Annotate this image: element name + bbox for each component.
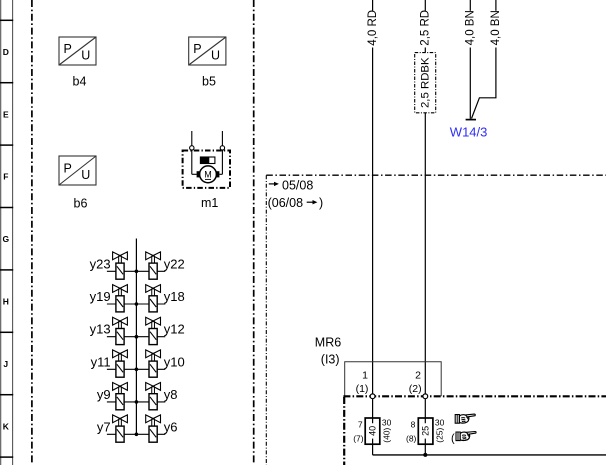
valve y23 bowtie bbox=[113, 252, 128, 260]
fist bbox=[460, 432, 469, 440]
valve y11 bowtie bbox=[113, 350, 128, 358]
valve y7 stem bbox=[118, 419, 120, 426]
cuff bbox=[456, 432, 460, 441]
solenoid valve y13 coil bbox=[116, 329, 124, 345]
dash-dot boundary line middle (x=253.7) bbox=[253, 0, 255, 465]
valve y12 stem bbox=[151, 321, 153, 328]
svg-text:y12: y12 bbox=[164, 322, 185, 337]
valve y19 bowtie bbox=[113, 285, 128, 293]
valve y12 bowtie bbox=[146, 317, 161, 325]
valve y10 bowtie bbox=[146, 350, 161, 358]
svg-text:05/08: 05/08 bbox=[282, 178, 313, 192]
m1 pin circle right bbox=[220, 146, 224, 150]
svg-text:4,0 BN: 4,0 BN bbox=[465, 10, 477, 45]
valve row y9/y8 wire bbox=[107, 401, 165, 403]
junction dot row y19/y18 bbox=[135, 302, 139, 306]
m1 M underline bbox=[205, 178, 211, 180]
valve y11 stem bbox=[118, 354, 120, 361]
svg-text:y10: y10 bbox=[164, 354, 185, 369]
valve y6 stem bbox=[151, 419, 153, 426]
valve y7 bowtie bbox=[113, 415, 128, 423]
svg-text:2,5 RDBK: 2,5 RDBK bbox=[419, 57, 431, 108]
m1 dash-dot box bbox=[183, 151, 230, 188]
wire fuse2 bottom segment bbox=[424, 439, 426, 455]
valve bus vertical wire bbox=[135, 239, 137, 435]
svg-text:4,0 BN: 4,0 BN bbox=[490, 10, 502, 45]
svg-text:2,5 RD: 2,5 RD bbox=[420, 10, 432, 46]
svg-text:y18: y18 bbox=[164, 289, 185, 304]
wire 4,0 BN (x=495.9) bbox=[495, 0, 497, 11]
svg-text:y9: y9 bbox=[97, 387, 111, 402]
m1 brush square left bbox=[197, 171, 201, 177]
bottom bus wire bbox=[373, 454, 606, 456]
solenoid valve y9 coil bbox=[116, 394, 124, 410]
m1 brush square right bbox=[216, 171, 220, 177]
solenoid valve y18 coil bbox=[149, 296, 157, 312]
junction dot row y23/y22 bbox=[135, 270, 139, 274]
pressure sensor b6 box bbox=[59, 156, 96, 185]
fuse 25A rect bbox=[418, 418, 433, 444]
svg-text:U: U bbox=[81, 168, 90, 182]
fuse 40A rect bbox=[365, 418, 380, 444]
wire fuse1 bottom segment bbox=[372, 439, 374, 455]
note arrow 2 bbox=[307, 201, 313, 203]
m1 stub wire right bbox=[221, 131, 223, 174]
solenoid valve y23 coil bbox=[116, 263, 124, 279]
knuckles bbox=[461, 418, 465, 422]
svg-text:1: 1 bbox=[362, 369, 368, 381]
valve y13 bowtie bbox=[113, 317, 128, 325]
bottom junction dot bbox=[423, 453, 427, 457]
svg-text:y13: y13 bbox=[90, 322, 111, 337]
svg-text:P: P bbox=[193, 42, 201, 56]
svg-text:y19: y19 bbox=[90, 289, 111, 304]
fist bbox=[459, 415, 468, 423]
svg-text:(06/08: (06/08 bbox=[268, 196, 303, 210]
svg-text:(2): (2) bbox=[409, 383, 422, 395]
m1 internal wires bbox=[192, 173, 197, 175]
svg-text:y6: y6 bbox=[164, 419, 178, 434]
svg-text:(: ( bbox=[451, 433, 455, 445]
svg-text:U: U bbox=[81, 49, 90, 63]
component boundary MR6 dash-dot vertical bbox=[343, 397, 345, 465]
row tick marks bbox=[0, 20, 13, 457]
pressure sensor b4 box bbox=[59, 37, 96, 65]
svg-text:): ) bbox=[319, 196, 323, 210]
svg-text:W14/3: W14/3 bbox=[450, 125, 488, 140]
svg-text:y22: y22 bbox=[164, 256, 185, 271]
valve y10 stem bbox=[151, 354, 153, 361]
svg-text:8: 8 bbox=[411, 419, 416, 429]
valve y23 stem bbox=[118, 256, 120, 263]
junction dot row y9/y8 bbox=[135, 400, 139, 404]
valve y8 bowtie bbox=[146, 383, 161, 391]
svg-text:m1: m1 bbox=[201, 196, 218, 210]
valve y18 bowtie bbox=[146, 285, 161, 293]
svg-text:P: P bbox=[64, 162, 72, 176]
solenoid valve y11 coil bbox=[116, 361, 124, 377]
solenoid valve y7 coil bbox=[116, 426, 124, 442]
svg-text:7: 7 bbox=[358, 419, 363, 429]
junction dot row y7/y6 bbox=[135, 433, 139, 437]
cuff bbox=[455, 415, 459, 424]
svg-text:40: 40 bbox=[368, 426, 378, 436]
svg-text:y23: y23 bbox=[90, 256, 111, 271]
svg-text:y8: y8 bbox=[164, 387, 178, 402]
hand icon 1 bbox=[455, 414, 475, 423]
solenoid valve y19 coil bbox=[116, 296, 124, 312]
component boundary MR6 dash-dot horizontal bbox=[343, 395, 606, 397]
valve row y19/y18 wire bbox=[107, 303, 165, 305]
note arrow right 05/08 bbox=[269, 183, 275, 185]
m1 pin circle left bbox=[190, 146, 194, 150]
solenoid valve y8 coil bbox=[149, 394, 157, 410]
svg-text:(8): (8) bbox=[406, 433, 417, 443]
valve y6 bowtie bbox=[146, 415, 161, 423]
valve y13 stem bbox=[118, 321, 120, 328]
solenoid valve y12 coil bbox=[149, 329, 157, 345]
m1 switch rectangle outline bbox=[200, 157, 215, 164]
svg-text:K: K bbox=[3, 421, 10, 431]
svg-text:(I3): (I3) bbox=[321, 353, 340, 367]
svg-text:b4: b4 bbox=[73, 75, 87, 89]
svg-text:4,0 RD: 4,0 RD bbox=[367, 10, 379, 46]
svg-text:b5: b5 bbox=[202, 75, 216, 89]
junction dot row y11/y10 bbox=[135, 368, 139, 372]
dash-dot boundary line left (x=32) bbox=[31, 0, 33, 465]
m1 motor circle bbox=[200, 166, 217, 183]
svg-text:25: 25 bbox=[421, 426, 431, 436]
sheet border column right vertical line bbox=[12, 0, 14, 465]
solenoid valve y6 coil bbox=[149, 426, 157, 442]
svg-text:b6: b6 bbox=[74, 197, 88, 211]
pressure sensor b5 box bbox=[189, 37, 226, 65]
svg-text:M: M bbox=[204, 170, 212, 180]
valve y19 stem bbox=[118, 288, 120, 295]
svg-text:E: E bbox=[3, 109, 9, 119]
svg-text:(25): (25) bbox=[435, 427, 445, 442]
svg-text:(1): (1) bbox=[356, 383, 369, 395]
knuckles bbox=[462, 435, 466, 439]
wire 2,5 RD (x=425.3) bbox=[424, 0, 426, 11]
pin circle 1 bbox=[370, 394, 375, 399]
pin circle 2 bbox=[423, 394, 428, 399]
svg-text:(7): (7) bbox=[353, 433, 364, 443]
dash-dot boundary horizontal (y=175.2) bbox=[266, 174, 606, 176]
wire 4,0 RD (x=372.6) bbox=[372, 0, 374, 11]
connector box MR6 bbox=[345, 362, 442, 397]
svg-text:y11: y11 bbox=[91, 354, 111, 369]
svg-text:MR6: MR6 bbox=[315, 335, 341, 349]
svg-text:P: P bbox=[64, 42, 72, 56]
svg-text:30: 30 bbox=[435, 418, 445, 428]
valve row y13/y12 wire bbox=[107, 336, 165, 338]
svg-text:G: G bbox=[2, 234, 9, 244]
svg-text:F: F bbox=[3, 172, 8, 182]
solenoid valve y22 coil bbox=[149, 263, 157, 279]
svg-text:(40): (40) bbox=[382, 427, 392, 442]
valve y8 stem bbox=[151, 386, 153, 393]
finger bbox=[466, 432, 476, 435]
splice terminal bar W14/3 bbox=[466, 119, 476, 121]
hand icon 2 bbox=[456, 432, 476, 441]
valve row y23/y22 wire bbox=[107, 270, 165, 272]
m1 stub wire left bbox=[191, 131, 193, 174]
dash-dot boundary thin vertical (x=266.3, 05/08 zone) bbox=[265, 175, 267, 465]
svg-text:J: J bbox=[3, 359, 8, 369]
solenoid valve y10 coil bbox=[149, 361, 157, 377]
svg-text:H: H bbox=[3, 297, 9, 307]
valve row y11/y10 wire bbox=[107, 368, 165, 370]
finger bbox=[466, 414, 476, 417]
svg-text:D: D bbox=[3, 47, 9, 57]
m1 switch rectangle black part bbox=[200, 157, 209, 164]
svg-text:y7: y7 bbox=[97, 419, 111, 434]
svg-text:30: 30 bbox=[382, 418, 392, 428]
valve y9 bowtie bbox=[113, 383, 128, 391]
valve y18 stem bbox=[151, 288, 153, 295]
wire 4,0 BN (x=470.3) bbox=[469, 0, 471, 11]
sheet border column left vertical line bbox=[0, 0, 2, 465]
svg-text:2: 2 bbox=[415, 369, 421, 381]
junction dot row y13/y12 bbox=[135, 335, 139, 339]
valve y9 stem bbox=[118, 386, 120, 393]
svg-text:U: U bbox=[211, 49, 220, 63]
dashed box 2,5 RDBK bbox=[415, 53, 436, 113]
valve y22 stem bbox=[151, 256, 153, 263]
valve y22 bowtie bbox=[146, 252, 161, 260]
valve row y7/y6 wire bbox=[107, 433, 165, 435]
